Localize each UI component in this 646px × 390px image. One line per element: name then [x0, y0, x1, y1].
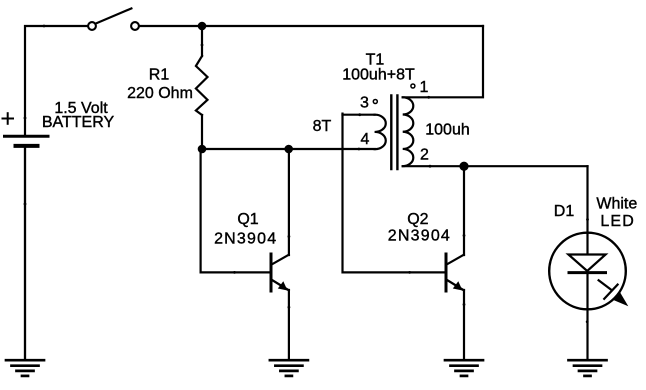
wire T1 pin 1 to top rail: [403, 26, 483, 97]
LED light arrow head: [613, 292, 629, 307]
tick on R1 top lead: [201, 44, 204, 47]
svg-text:3: 3: [360, 95, 369, 112]
transformer T1 primary winding 8T: [375, 115, 386, 150]
svg-text:Q1: Q1: [237, 211, 258, 228]
svg-text:Q2: Q2: [407, 211, 428, 228]
tick on Q2 collector: [463, 234, 466, 237]
LED D1 circle: [549, 233, 626, 310]
wire T1 pin 3 lead: [343, 114, 375, 116]
LED light arrow shaft 1: [599, 280, 611, 289]
transformer T1 secondary winding 100uh: [403, 97, 414, 166]
svg-text:2: 2: [420, 147, 429, 164]
svg-text:1: 1: [420, 79, 429, 96]
wire T1 pin 3 drop to Q2 base: [343, 114, 446, 273]
ground LED: [569, 360, 607, 376]
junction dot pin2 / Q2 collector: [459, 162, 468, 171]
tick on Q1 emitter: [288, 306, 291, 309]
wire Q2 emitter lead: [463, 290, 465, 359]
tick on top rail: [43, 25, 46, 28]
svg-text:R1: R1: [149, 67, 170, 84]
transistor Q2: [446, 254, 464, 291]
pin 1 phase dot: [411, 84, 415, 88]
svg-text:220 Ohm: 220 Ohm: [127, 85, 193, 102]
wire R1 top lead: [201, 26, 203, 56]
battery B1 positive plate: [5, 135, 49, 138]
junction dot Q1 collector top: [284, 145, 293, 154]
tick on base rail: [358, 148, 361, 151]
tick on LED anode wire: [586, 218, 589, 221]
wire battery negative lead: [24, 148, 26, 359]
junction dot R1 bottom: [198, 145, 207, 154]
wire Q2 collector: [463, 166, 465, 255]
svg-text:BATTERY: BATTERY: [42, 114, 115, 131]
ground battery: [6, 360, 44, 376]
wire LED anode drop: [586, 166, 588, 254]
svg-text:White: White: [596, 196, 637, 213]
tick on Q1 base wire: [233, 271, 236, 274]
battery B1 negative plate: [16, 144, 38, 148]
tick on Q2 emitter: [463, 303, 466, 306]
tick on pin 3 lead: [358, 113, 361, 116]
svg-text:100uh+8T: 100uh+8T: [342, 67, 415, 84]
tick on pin 1 wire: [427, 96, 430, 99]
tick on battery leads: [24, 117, 27, 120]
wire LED cathode lead: [586, 273, 588, 359]
svg-text:2N3904: 2N3904: [388, 228, 451, 245]
svg-text:8T: 8T: [313, 118, 332, 135]
battery B1 plus sign: [3, 113, 14, 124]
svg-text:D1: D1: [554, 203, 575, 220]
wire top rail left segment: [25, 26, 88, 135]
tick on Q1 collector: [288, 235, 291, 238]
LED D1 triangle: [568, 255, 605, 272]
tick on LED cathode lead: [586, 320, 589, 323]
pin 3 phase dot: [373, 100, 377, 104]
svg-text:LED: LED: [600, 213, 635, 230]
wire base rail y=149 (R1 bottom to T1 pin 4): [201, 148, 375, 150]
switch S1: [88, 8, 139, 30]
wire Q1 collector: [288, 149, 290, 255]
svg-text:4: 4: [361, 131, 370, 148]
ground Q1: [270, 360, 308, 376]
wire T1 pin 2 to LED: [403, 165, 588, 167]
tick on pin 2 wire: [429, 165, 432, 168]
junction dot R1 top: [198, 22, 207, 31]
svg-text:100uh: 100uh: [425, 122, 470, 139]
svg-text:2N3904: 2N3904: [214, 231, 277, 248]
wire Q1 base drop: [201, 149, 270, 272]
LED light arrow shaft 2: [604, 285, 617, 299]
wire R1 bottom lead: [201, 115, 203, 149]
transformer T1 core: [391, 96, 397, 170]
wire top rail right segment: [139, 25, 483, 27]
LED D1 cathode bar: [569, 271, 606, 274]
transistor Q1: [271, 254, 289, 291]
resistor R1: [196, 56, 208, 115]
tick on Q2 base wire: [408, 271, 411, 274]
ground Q2: [445, 360, 483, 376]
wire Q1 emitter lead: [288, 290, 290, 359]
